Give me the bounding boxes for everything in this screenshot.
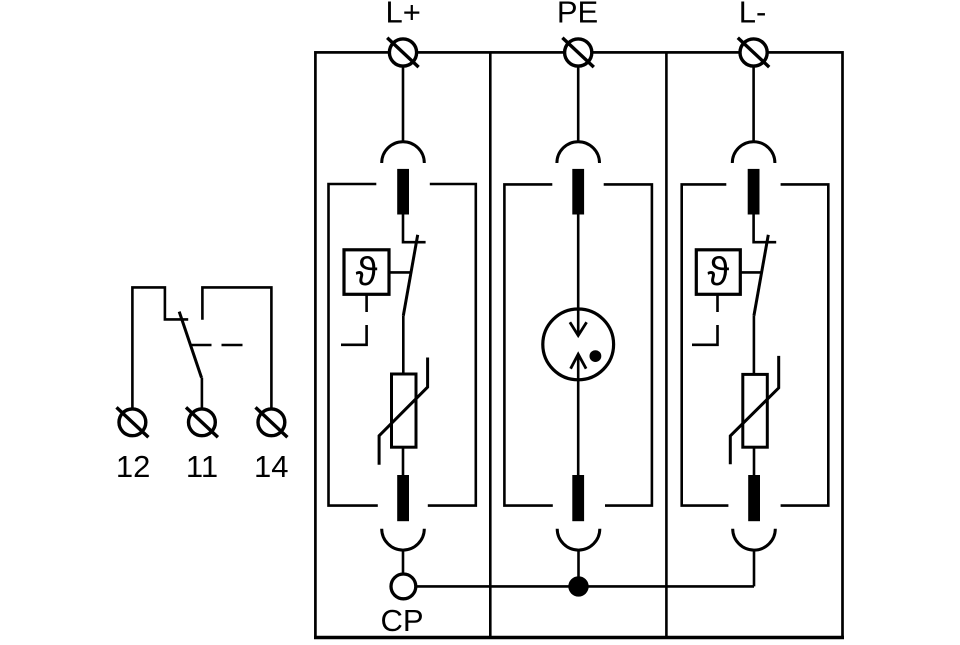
wire bar to thermal switch, L+ column: [402, 215, 405, 244]
spark gap upper arrowhead: [570, 322, 587, 335]
terminal L-: [738, 38, 769, 67]
varistor diagonal stroke, L+ column: [379, 358, 428, 465]
disconnector element (black bar) top, L+ column: [397, 169, 409, 215]
wire arc to CP terminal: [402, 551, 405, 573]
wire L+ terminal to plug arc: [402, 68, 405, 142]
wire terminal 11 up to blade pivot: [201, 378, 204, 408]
wire L- terminal to plug arc: [752, 68, 755, 142]
thermal switch blade, L- column: [754, 235, 768, 316]
disconnector element (black bar) bottom, L- column: [748, 475, 760, 521]
thermal response box, L- column: [696, 250, 740, 294]
plug-in connector arc top, PE column: [557, 142, 600, 163]
junction dot on CP bus under PE column: [568, 576, 588, 596]
varistor diagonal stroke, L- column: [730, 356, 778, 464]
svg-text:PE: PE: [557, 0, 598, 30]
spark gap circle, PE column: [543, 309, 614, 380]
thermal switch blade, L+ column: [403, 235, 417, 316]
svg-text:L-: L-: [739, 0, 767, 30]
wire PE terminal to plug arc: [577, 68, 580, 142]
inner module box, L- column: [682, 184, 829, 505]
plug-in connector arc bottom, L- column: [733, 529, 776, 550]
thermal switch contact tick, L- column: [754, 241, 777, 244]
wire varistor to bottom bar, L+ column: [402, 447, 405, 475]
spark gap lower arrow shaft and wire to bottom bar, PE column: [577, 354, 580, 475]
outer enclosure box: [315, 52, 842, 637]
mechanical linkage dashes from blade: [191, 344, 243, 347]
wire arc to CP bus junction, PE column: [577, 551, 580, 587]
wire terminal 12 up and bracket to fixed contact: [132, 287, 188, 407]
remote contact blade 11-12: [179, 312, 201, 378]
terminal L+: [387, 38, 418, 67]
svg-text:L+: L+: [386, 0, 421, 30]
spark gap trigger dot: [590, 350, 602, 362]
varistor rectangle, L- column: [743, 374, 768, 447]
plug-in connector arc bottom, L+ column: [382, 529, 425, 550]
terminal 11: [186, 407, 218, 437]
disconnector element (black bar) top, L- column: [748, 169, 760, 215]
plug-in connector arc top, L- column: [732, 142, 775, 163]
divider between L+ and PE sections: [489, 52, 492, 637]
svg-text:11: 11: [186, 449, 218, 484]
wire blade to varistor, L- column: [753, 316, 756, 375]
inner module box, PE column: [504, 184, 652, 505]
fixed contact 14 stub and bracket wire to terminal 14: [202, 287, 271, 407]
CP bus wire: [416, 585, 754, 588]
svg-text:14: 14: [254, 449, 288, 484]
svg-text:ϑ: ϑ: [356, 250, 378, 294]
terminal 14: [256, 407, 288, 437]
connector thermal box to blade, L+ column: [389, 271, 411, 274]
thermal switch contact tick, L+ column: [403, 241, 426, 244]
wire bar into spark gap, PE column: [577, 215, 580, 336]
wire arc down to CP bus, L- column: [753, 551, 756, 587]
plug-in connector arc top, L+ column: [382, 142, 425, 163]
disconnector element (black bar) bottom, PE column: [572, 475, 584, 521]
disconnector element (black bar) top, PE column: [572, 169, 584, 215]
divider between PE and L- sections: [665, 52, 668, 637]
terminal 12: [117, 407, 149, 437]
wire varistor to bottom bar, L- column: [753, 447, 756, 475]
svg-text:CP: CP: [380, 603, 423, 638]
svg-text:ϑ: ϑ: [707, 250, 729, 294]
connector thermal box to blade, L- column: [740, 271, 761, 274]
wire blade to varistor, L+ column: [402, 316, 405, 374]
terminal PE: [562, 38, 593, 67]
plug-in connector arc bottom, PE column: [557, 529, 600, 550]
disconnector element (black bar) bottom, L+ column: [397, 475, 409, 521]
mechanical linkage dashes below thermal box, L+ column: [341, 294, 367, 345]
wire bar to thermal switch, L- column: [752, 215, 755, 244]
inner module box, L+ column: [329, 184, 476, 506]
spark gap lower arrowhead: [571, 354, 587, 369]
terminal CP: [391, 574, 416, 599]
mechanical linkage dashes below thermal box, L- column: [692, 294, 718, 345]
svg-text:12: 12: [116, 449, 150, 484]
thermal response box, L+ column: [344, 250, 389, 294]
varistor rectangle, L+ column: [392, 374, 417, 447]
outer enclosure bottom edge: [314, 636, 844, 639]
